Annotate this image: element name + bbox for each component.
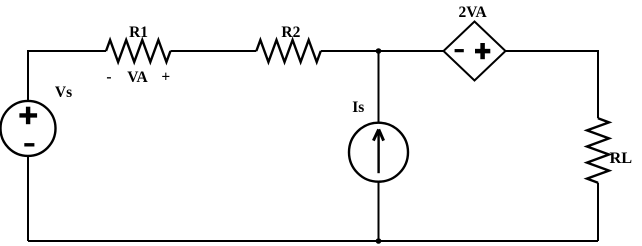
svg-text:+: + (161, 69, 170, 86)
wire (28, 240, 598, 242)
node junction top (376, 48, 382, 54)
wire (170, 50, 256, 52)
voltage source Vs (1, 101, 56, 156)
svg-text:RL: RL (609, 148, 632, 167)
node junction bottom (376, 238, 382, 244)
svg-text:Is: Is (352, 99, 364, 116)
wire (597, 183, 599, 241)
wire (321, 50, 444, 52)
svg-text:-: - (106, 69, 111, 86)
wire (378, 51, 380, 123)
svg-text:2VA: 2VA (459, 4, 488, 21)
resistor RL (587, 118, 609, 182)
wire (27, 156, 29, 241)
resistor R1 (106, 40, 170, 62)
svg-text:VA: VA (127, 69, 148, 86)
current source Is (349, 123, 408, 182)
svg-text:R2: R2 (281, 24, 300, 41)
dependent source 2VA (444, 22, 506, 81)
wire (506, 51, 599, 118)
svg-text:Vs: Vs (55, 84, 72, 101)
wire (28, 51, 106, 101)
wire (378, 182, 380, 241)
resistor R2 (256, 40, 320, 62)
svg-text:R1: R1 (129, 24, 148, 41)
